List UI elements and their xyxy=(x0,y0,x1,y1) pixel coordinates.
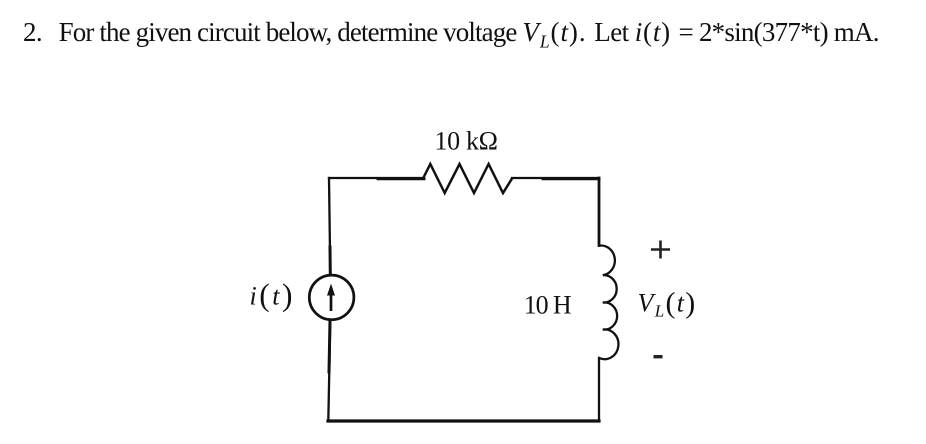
svg-text:10 kΩ: 10 kΩ xyxy=(435,127,498,156)
wire top-left horizontal xyxy=(329,177,423,179)
plus sign xyxy=(651,241,670,259)
wire overlay thick segment left below source xyxy=(329,320,330,372)
wire overlay thick segment top-left xyxy=(378,177,424,180)
wire bottom horizontal xyxy=(328,419,599,422)
wire overlay thick segment top-right xyxy=(543,177,599,180)
resistor R1 10 kOhm zigzag xyxy=(423,164,512,193)
wire left vertical (top segment) xyxy=(329,178,330,275)
wire top-right horizontal xyxy=(512,177,599,179)
svg-text:i(t): i(t) xyxy=(250,278,295,313)
wire overlay thick segment left above source xyxy=(329,247,332,275)
wire left vertical (bottom segment) xyxy=(328,320,330,422)
inductor L1 10 H coil xyxy=(599,245,618,359)
wire right vertical (bottom segment) xyxy=(598,358,600,421)
minus sign xyxy=(654,355,663,358)
wire right vertical (top segment) xyxy=(598,178,601,246)
current source I1 circle xyxy=(309,275,354,320)
problem statement text xyxy=(23,17,879,52)
current source arrow xyxy=(327,284,335,311)
svg-text:10 H: 10 H xyxy=(524,291,572,320)
svg-text:VL(t): VL(t) xyxy=(638,287,697,321)
